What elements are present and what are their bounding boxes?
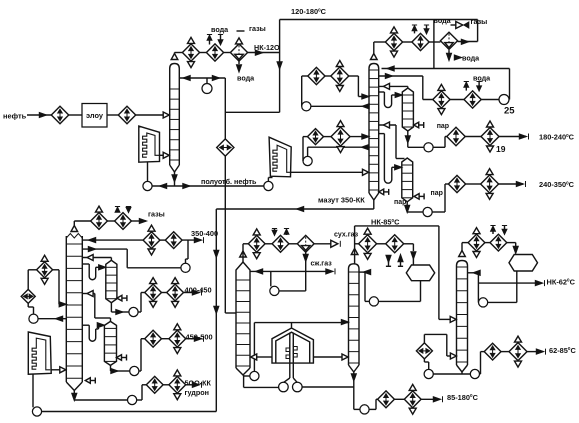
text label 25 — [504, 106, 515, 117]
furnace F4 (reboiler) — [272, 328, 313, 363]
wire X1 bottom stem — [244, 375, 250, 387]
wire 180-240 outlet — [499, 134, 529, 140]
wire ELOU to D2 — [107, 114, 118, 116]
wire K-5 top reflux/product line — [82, 238, 143, 243]
wire D26 to D27 — [28, 270, 36, 290]
wire K-2 to S1 U-loop — [379, 92, 403, 108]
air cooler D20 — [145, 278, 162, 308]
svg-text:гудрон: гудрон — [185, 388, 210, 397]
wire D7-D8 — [403, 41, 412, 43]
pump P25 — [499, 95, 509, 105]
water mark out of D11 — [464, 82, 469, 91]
air cooler D15 — [481, 169, 499, 200]
svg-text:газы: газы — [249, 24, 266, 33]
wire H2 bottoms leg — [488, 271, 517, 302]
wire mazut down line — [214, 209, 219, 412]
heat exchanger DL1 — [308, 67, 325, 84]
air cooler D13 — [481, 121, 499, 152]
wire S1 bottom to pump — [406, 131, 424, 147]
air cooler D22 — [143, 225, 160, 255]
water mark into D8 — [424, 25, 429, 33]
heat exchanger D37 — [484, 343, 501, 360]
wire F2 outlet to K-2 feed — [291, 169, 370, 175]
wire D31-D32 — [376, 243, 386, 245]
water mark into D29 — [272, 229, 277, 236]
air cooler DL2 — [331, 61, 349, 92]
svg-text:19: 19 — [496, 144, 506, 154]
wire A bottom to pump PA — [111, 303, 128, 315]
svg-text:5ОО-КК: 5ОО-КК — [185, 379, 212, 388]
wire D8-D9 — [429, 41, 440, 43]
svg-text:25: 25 — [504, 106, 515, 117]
heat exchanger D12 — [447, 127, 465, 145]
heat exchanger D2 — [118, 106, 135, 123]
pump PF (X1 reflux) — [270, 286, 279, 295]
wire reflux pump right leg — [279, 271, 306, 291]
wire K-2 loop2 return — [308, 145, 369, 157]
wire 240-350 outlet — [499, 181, 526, 187]
wire F1 inlet from pump P2 — [147, 162, 149, 181]
gas vent tick above D5 — [237, 30, 245, 32]
furnace F2 (K-2 heater) — [269, 137, 291, 177]
text label 240-350C — [539, 180, 575, 189]
wire X2 overhead riser — [354, 226, 356, 264]
svg-text:вода: вода — [434, 16, 452, 25]
wire loop1 into K-2 — [325, 76, 369, 99]
svg-text:85-1800С: 85-1800С — [447, 393, 479, 402]
wire PV4 to gudron row — [137, 385, 147, 400]
reflux drum H2 hexagon — [509, 255, 538, 272]
wire X2 bottom product — [352, 372, 360, 409]
wire D39 return to X3 — [424, 334, 456, 359]
wire D24-D25 — [107, 220, 114, 222]
svg-text:полуотб. нефть: полуотб. нефть — [201, 177, 257, 186]
wire 350-400 outlet — [182, 237, 203, 243]
wire NK-120 to heat exchanger branch — [225, 111, 279, 113]
wire X1 feed line — [225, 186, 236, 313]
wire A vapor return to K-5 — [82, 255, 111, 261]
wire S2 bottom to pump — [405, 202, 423, 212]
column K-1 (topping column) — [170, 64, 180, 173]
air cooler DL4 — [331, 121, 350, 153]
text label пар S1 — [437, 123, 449, 130]
wire reflux header into K-2 — [382, 66, 510, 71]
wire B bottom to pump PB — [111, 365, 130, 373]
furnace F1 (K-1 heater) — [139, 126, 160, 162]
steam tick into A — [117, 295, 127, 301]
pump PH2 — [479, 298, 488, 307]
text label вода above D11 — [473, 74, 491, 83]
heat exchanger D33 — [378, 391, 395, 408]
wire F1 outlet to K-1 — [160, 152, 170, 158]
wire PX2 to 85-180 row — [369, 399, 378, 409]
pump PF4a — [279, 382, 289, 392]
water outlet below D5 — [237, 61, 255, 82]
column K-5 (vacuum column) — [66, 234, 82, 391]
water mark out of D4 — [207, 35, 212, 45]
X1 riser triangle — [240, 251, 247, 257]
text label пар S2 — [431, 190, 443, 197]
furnace F3 (vacuum heater) — [28, 332, 51, 374]
text label нефть (crude oil feed) — [3, 112, 27, 121]
text label сж.газ — [311, 261, 333, 268]
wire K-2 overhead riser — [374, 42, 386, 54]
text label 500-КК — [185, 379, 212, 388]
wire header corner to pump 25 — [509, 69, 510, 100]
pump PF4b — [293, 382, 303, 392]
side stripper B — [104, 321, 116, 365]
wire D22-D23 — [160, 239, 165, 241]
svg-text:180-2400С: 180-2400С — [539, 133, 575, 142]
air cooler D35 — [468, 228, 485, 258]
svg-text:НК-850С: НК-850С — [371, 218, 400, 227]
pump PX3a — [424, 369, 433, 378]
wire D14-D15 — [466, 183, 481, 185]
wire bottom header line — [42, 411, 217, 413]
F4 stack to feed line — [291, 323, 293, 328]
wire loop2 into K-2 — [324, 134, 370, 139]
text label полуотб. нефть — [201, 177, 257, 186]
heat exchanger D26 — [21, 289, 35, 303]
text label пар K-2 — [394, 199, 406, 206]
wire D2 to column K-1 feed — [136, 112, 170, 118]
heat exchanger D23 — [165, 232, 182, 249]
text label 400-450 — [185, 286, 212, 295]
pump PX1 — [250, 371, 259, 380]
wire PX1 riser to X2 feed — [254, 320, 348, 372]
wire K-5 overhead line — [74, 221, 90, 226]
wire PS1 to 180-240 row — [433, 137, 447, 148]
svg-text:вода: вода — [473, 74, 491, 83]
wire mazut line — [216, 207, 373, 212]
water mark out of D32 below — [398, 255, 403, 266]
condenser D9 — [440, 32, 457, 49]
wire PF4b to X2 stem — [302, 386, 354, 388]
heat exchanger D39 (X3 reboiler) — [416, 343, 432, 359]
pump PL1 — [302, 102, 311, 111]
water mark into D11 — [477, 82, 482, 91]
wire pumparound return to K-5 — [53, 270, 67, 307]
wire PL1 riser — [302, 76, 308, 106]
text label НК-85C — [371, 218, 400, 227]
svg-text:120-1800С: 120-1800С — [291, 7, 327, 16]
svg-text:пар: пар — [437, 123, 449, 130]
reflux drum H1 hexagon — [406, 265, 434, 281]
svg-text:350-400: 350-400 — [191, 229, 218, 238]
wire K-5 bottoms to pump PV4 — [74, 399, 127, 402]
svg-text:нефть: нефть — [3, 112, 27, 121]
pump PX2 — [360, 405, 369, 414]
air cooler D27 — [37, 255, 53, 284]
svg-text:400-450: 400-450 — [185, 286, 212, 295]
air cooler D19 — [169, 324, 186, 354]
steam tick into K-5 bottom — [85, 378, 95, 384]
wire D12-D13 — [465, 136, 481, 138]
svg-text:мазут 350-КК: мазут 350-КК — [318, 196, 365, 205]
wire X2 condenser row — [355, 243, 360, 245]
svg-text:62-850С: 62-850С — [549, 346, 576, 355]
text label газы above D5 — [249, 24, 266, 33]
column X3 — [457, 261, 468, 373]
wire D35-D36 — [485, 242, 490, 244]
wire D30 bottom szh gas — [303, 252, 308, 271]
steam tick into S1 — [414, 122, 424, 128]
wire PX3b to 62-85 row — [480, 352, 485, 374]
wire X3 overhead riser — [462, 243, 468, 251]
wire P3 to furnace F2 — [268, 178, 272, 182]
side stripper A — [106, 260, 117, 302]
wire NK-120 vertical line — [277, 20, 282, 113]
pump P1 (K-1 reflux) — [202, 78, 212, 94]
air cooler D21 — [167, 278, 184, 308]
wire S2 vapor return to K-2 — [379, 122, 405, 159]
pump PS2 — [423, 207, 432, 216]
K-2 top nozzle triangle — [371, 54, 378, 60]
wire PX3a to reboiler exchanger — [424, 359, 428, 370]
wire D5 to NK-120 corner — [248, 50, 280, 55]
svg-text:вода: вода — [462, 54, 480, 63]
pump PV4 — [128, 395, 137, 404]
pump PL2 — [303, 156, 312, 165]
svg-text:240-3500С: 240-3500С — [539, 180, 575, 189]
wire 85-180 outlet — [421, 396, 442, 402]
water mark into D36 — [502, 226, 507, 235]
wire D4-D5 — [224, 52, 231, 54]
condenser D30 — [297, 235, 314, 252]
water mark out of D36 — [490, 226, 495, 235]
vent valve on gas drum — [451, 22, 469, 29]
wire D16-D17 — [163, 384, 169, 386]
wire F3 inlet — [32, 374, 34, 407]
wire poluotb neft line — [152, 184, 264, 189]
wire F4 outlet to X1 — [251, 354, 272, 360]
water mark out of D8 — [412, 25, 417, 33]
heat exchanger D1 (crude preheat) — [51, 106, 68, 123]
svg-text:газы: газы — [471, 17, 488, 26]
heat exchanger D18 — [145, 330, 162, 347]
heat exchanger D16 — [146, 376, 163, 393]
heat exchanger D25 — [115, 213, 132, 230]
wire D18-D19 — [162, 338, 169, 340]
water mark out of D25 — [115, 207, 120, 213]
wire 400-450 outlet — [184, 290, 202, 296]
text label газы (K-2 gases) — [471, 17, 488, 26]
wire K-1 bottom to line — [174, 182, 176, 187]
text label НК-62C — [547, 277, 576, 286]
heat exchanger D8 — [412, 33, 429, 50]
pump P26 — [29, 314, 38, 323]
heat exchanger D32 — [386, 235, 404, 253]
wire gases outlet — [131, 219, 146, 224]
text label газы vacuum — [148, 210, 165, 219]
heat exchanger D36 — [490, 234, 507, 251]
air cooler D3 — [182, 37, 199, 67]
column X2 — [349, 264, 360, 372]
wire D3-D4 — [200, 52, 207, 54]
heat exchanger D10 — [433, 84, 450, 114]
text label вода on top line — [434, 16, 452, 25]
air cooler D34 — [404, 384, 421, 414]
wire K-1 reflux line — [179, 76, 225, 81]
wire K-2 side draw to row — [379, 74, 423, 100]
pump PV1 — [181, 263, 190, 272]
wire PH1 reflux into X2 — [359, 270, 371, 302]
text label НК-120 — [254, 43, 280, 52]
steam tick into B — [117, 355, 127, 361]
K-1 bottom outlet arrow — [172, 172, 177, 182]
text label 450-500 — [186, 333, 213, 342]
wire K-2 loop1 return — [311, 104, 369, 109]
K-5 top nozzle triangle — [71, 226, 78, 232]
wire reflux pump left leg — [270, 271, 272, 286]
pump P3 — [264, 181, 273, 190]
X3 top nozzle triangle — [459, 251, 466, 257]
K-5 bottom arrow — [72, 391, 77, 401]
pump P37 — [32, 407, 41, 416]
wire branch down to pump PV1 — [186, 240, 189, 263]
heat exchanger D11 — [464, 91, 481, 108]
wire 120-180 top line — [280, 19, 478, 21]
pump PH1 — [369, 297, 378, 306]
svg-text:вода: вода — [211, 25, 229, 34]
water mark into D4 — [218, 35, 223, 45]
wire 62-85 outlet — [527, 349, 546, 355]
wire K-1 overhead to condenser row — [175, 53, 183, 54]
wire D9 outlet to gas riser — [458, 40, 478, 45]
wire K-5 to B U-loop — [82, 323, 104, 341]
wire D33-D34 — [394, 398, 404, 400]
water mark into D25 — [126, 207, 131, 213]
air cooler D7 (K-2 overhead) — [385, 27, 402, 57]
wire NK-62 outlet — [478, 280, 544, 286]
pump P2 — [143, 181, 152, 190]
wire K-5 draw to pump P26 — [38, 316, 66, 321]
condenser D5 — [230, 38, 247, 61]
wire water line down x433.9 — [433, 20, 435, 69]
air cooler D28 — [248, 229, 265, 259]
svg-text:пар: пар — [394, 199, 406, 206]
wire D1 to ELOU — [69, 114, 82, 116]
wire PV1 draw dogleg from K-5 — [82, 247, 181, 268]
wire K-5 to A U-loop — [82, 264, 106, 280]
heat exchanger DL3 — [308, 129, 324, 145]
wire PB to 450-500 row — [139, 339, 145, 371]
wire S1 vapor return to K-2 — [379, 83, 408, 89]
text label 180-240C — [539, 133, 575, 142]
pump PB — [130, 366, 139, 375]
pump PS1 — [424, 143, 433, 152]
wire PH2 reflux into X3 — [468, 271, 481, 303]
svg-text:вода: вода — [237, 74, 255, 83]
wire K-2 bottom to mazut line — [373, 200, 375, 209]
wire row y99 through exchangers — [423, 99, 499, 101]
heat exchanger D29 — [272, 235, 289, 252]
wire D37-D38 — [501, 351, 509, 353]
wire PL2 riser — [303, 137, 308, 161]
svg-text:газы: газы — [148, 210, 165, 219]
water mark into D32 below — [386, 256, 391, 267]
wire dry gas outlet — [314, 240, 340, 247]
wire gas riser x477 — [477, 20, 479, 42]
wire D29-D30 — [289, 243, 297, 245]
K-1 top nozzle triangle — [171, 54, 178, 60]
air cooler D17 — [169, 370, 186, 400]
pump PA — [129, 307, 138, 316]
side stripper S2 — [402, 158, 413, 202]
side stripper S1 — [402, 88, 413, 131]
wire B vapor return to K-5 — [82, 291, 110, 322]
wire PS2 to 240-350 row — [432, 184, 448, 212]
F4 coil left — [283, 333, 289, 383]
wire NK-85 line to X3 — [355, 226, 457, 323]
heat exchanger D6 — [217, 139, 234, 156]
svg-text:НК-620С: НК-620С — [547, 277, 576, 286]
wire F3 outlet to K-5 — [51, 367, 66, 373]
wire K-2 to S2 U-loop — [379, 134, 402, 184]
text label 350-400 — [191, 229, 218, 238]
air cooler D38 — [509, 336, 527, 367]
wire row to drum H2 — [507, 243, 518, 253]
ELOU desalter unit box — [82, 104, 107, 128]
steam tick into S2 — [414, 193, 424, 199]
wire D28-D29 — [265, 243, 272, 245]
wire gudron outlet — [186, 382, 202, 388]
svg-text:450-500: 450-500 — [186, 333, 213, 342]
wire szh gas outlet — [306, 268, 335, 274]
heat exchanger D4 (water cooler) — [206, 44, 223, 61]
svg-text:элоу: элоу — [86, 111, 104, 120]
text label сух.газ — [334, 232, 359, 239]
steam tick into K-2 bottom — [379, 189, 389, 195]
wire crude feed line — [27, 113, 52, 118]
column K-2 (atmospheric column) — [369, 64, 379, 201]
svg-text:пар: пар — [431, 190, 443, 197]
wire row to drum H1 — [403, 244, 416, 267]
column X1 (stabilizer) — [236, 262, 250, 375]
X2 riser triangle — [351, 249, 358, 255]
pump PX3b — [470, 369, 479, 378]
heat exchanger D24 — [91, 206, 108, 229]
wire H1 to pump PH1 — [379, 281, 421, 302]
heat exchanger D14 — [448, 175, 465, 192]
wire 450-500 outlet — [186, 336, 204, 342]
wire X1 overhead riser — [243, 244, 248, 262]
text label вода above D4 — [211, 25, 229, 34]
text label гудрон — [185, 388, 210, 397]
wire P26 riser — [28, 303, 33, 314]
water mark out of D29 — [284, 229, 289, 236]
text label 19 — [496, 144, 506, 154]
wire X1 bottoms to PF4a — [244, 386, 279, 388]
wire vertical product line x225 — [224, 78, 226, 186]
text label 120-180C — [291, 7, 327, 16]
text label 85-180C — [447, 393, 479, 402]
text label 62-85C — [549, 346, 576, 355]
water outlet below D9 — [447, 50, 480, 62]
wire reflux into X1 — [250, 269, 306, 274]
wire F4 outlet to X2 — [313, 354, 348, 360]
F4 coil right — [293, 333, 297, 383]
air cooler D31 — [359, 228, 377, 259]
wire D20-D21 — [162, 292, 167, 294]
svg-text:сж.газ: сж.газ — [311, 261, 333, 268]
wire X3 bottom line — [433, 372, 470, 374]
wire PA to 400-450 row — [138, 293, 145, 313]
text label мазут 350-КК — [318, 196, 365, 205]
svg-text:НК-12О: НК-12О — [254, 43, 280, 52]
